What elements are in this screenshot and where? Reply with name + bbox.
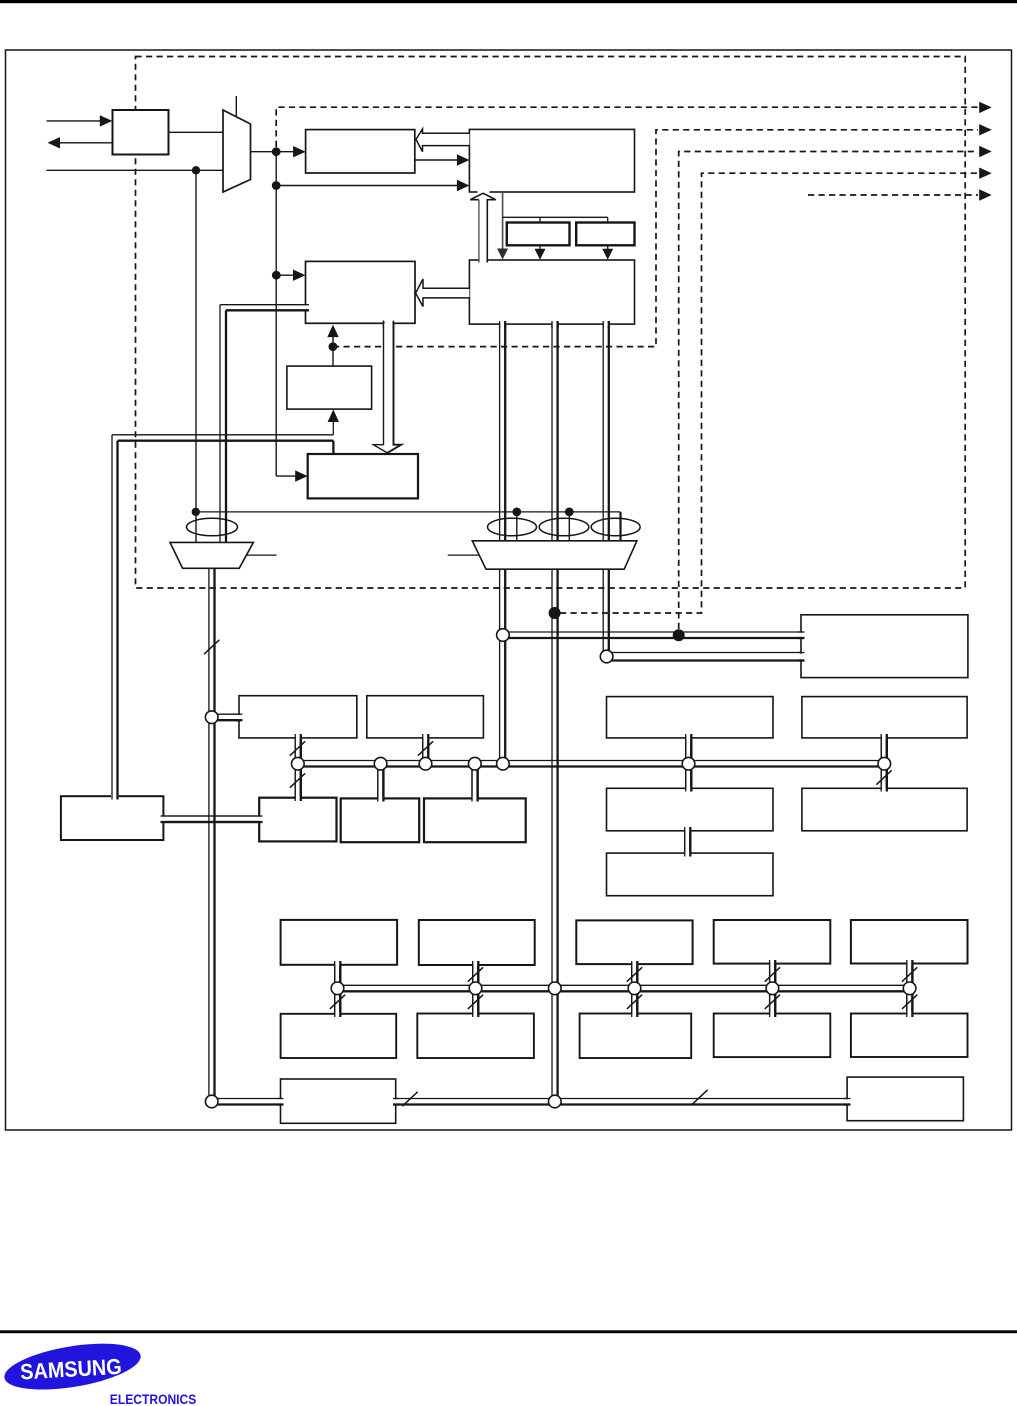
left mux output bus vertical <box>208 568 210 1101</box>
slash on G bus after E1 <box>402 1092 417 1106</box>
channel block9 to block11 <box>685 738 687 788</box>
wire IO block to mux <box>169 131 224 133</box>
top mux select stub <box>235 96 237 117</box>
top mux trapezoid <box>223 110 251 192</box>
wire drop into shift block top <box>332 441 334 455</box>
slash below E bus at D5 <box>902 995 917 1009</box>
slash above E bus at C2 <box>468 967 483 981</box>
slash on G bus before F <box>692 1090 707 1104</box>
arrow small block B to lower control <box>607 245 609 250</box>
wire control line from dot down the left side <box>195 170 197 542</box>
slash above E bus at C3 <box>627 967 642 981</box>
block instruction decode <box>306 130 415 173</box>
connector circle bus1 to bus A <box>497 629 510 642</box>
block C1 <box>281 920 398 965</box>
stub from aux block to reg B1 <box>163 815 259 817</box>
wire select drop a into data mux <box>516 512 518 542</box>
block address register <box>306 261 416 323</box>
block right bus interface <box>801 615 968 678</box>
channel circle to reg B2 <box>377 764 379 799</box>
connector circle E bus 4 <box>766 982 779 995</box>
right mux select stub <box>448 554 480 556</box>
junction dot mux output <box>272 147 281 156</box>
channel block11 to block13 <box>684 831 686 853</box>
channel C2-D2 <box>472 965 474 1014</box>
block reg B1 <box>259 798 336 842</box>
dashed path 4 arrow <box>979 168 992 179</box>
right data mux trapezoid <box>472 541 637 569</box>
block 12 far right <box>802 788 967 831</box>
dashed path 2 arrow <box>979 124 992 135</box>
block D5 <box>851 1014 968 1058</box>
block reg B2 <box>341 798 420 842</box>
block D4 <box>714 1014 831 1058</box>
edge gaps for channels <box>296 736 300 740</box>
junction dot node 3 <box>272 271 281 280</box>
block control top-right <box>469 129 634 192</box>
bus1 from control block to internal bus <box>499 324 501 764</box>
junction dot node 2 <box>272 181 281 190</box>
block C2 <box>419 920 535 965</box>
wire riser into temp reg block bottom <box>332 418 334 435</box>
block 13 right column <box>607 853 774 896</box>
channel C3-D3 <box>631 964 633 1013</box>
connector circle E bus 5 <box>903 982 916 995</box>
channel C1-D1 <box>334 964 336 1013</box>
dashed signal path 1 from mux output node <box>276 107 978 147</box>
bus3 from control block to transfer bus <box>602 324 604 657</box>
hollow arrow up control lower to control top <box>478 190 490 195</box>
coil ellipse left <box>187 518 238 536</box>
outer dashed boundary box <box>136 57 966 589</box>
block 9 right column <box>607 697 774 738</box>
coil ellipse a <box>488 518 537 536</box>
arrow small block A to lower control <box>539 245 541 250</box>
wire mux output to node <box>251 151 295 153</box>
slash above circle A2 <box>418 741 433 755</box>
wire register pair from address block left <box>220 304 306 306</box>
connector circle internal bus right end <box>878 757 891 770</box>
slash below E bus at D1 <box>330 995 345 1009</box>
dashed signal path 5 <box>808 194 978 196</box>
wire node to control block lower input <box>276 185 458 187</box>
block small B <box>576 223 634 246</box>
bottom page rule <box>0 1330 1017 1333</box>
block reg A2 <box>367 696 484 738</box>
connector circle E bus 3 <box>628 982 641 995</box>
slash below E bus at D3 <box>627 995 642 1009</box>
block D3 <box>580 1014 692 1059</box>
slash below circle block10 <box>876 770 891 784</box>
channel C4-D4 <box>769 964 771 1014</box>
slash above circle A1 <box>290 741 305 755</box>
junction dot on third line <box>192 166 200 174</box>
horizontal transfer bus B to register block right <box>607 652 801 654</box>
channel C5-D5 <box>906 964 908 1014</box>
bottom data bus G <box>212 1098 848 1100</box>
block F bottom right <box>847 1077 963 1121</box>
hollow arrow lower control to address reg <box>416 279 470 307</box>
connector circle E bus 1 <box>331 982 344 995</box>
arrow into control block lower <box>457 180 470 191</box>
register stub from circle to working reg <box>217 713 239 715</box>
junction dot dashed path3 on bus A <box>673 629 685 641</box>
hollow arrow control to decode <box>416 129 469 152</box>
svg-text:ELECTRONICS: ELECTRONICS <box>110 1392 197 1406</box>
dashed signal path 3 from data bus node <box>679 152 978 630</box>
wire horizontal pair to shifter and temp reg <box>112 434 333 436</box>
wire select drop b into data mux <box>568 512 570 542</box>
coil ellipse c <box>591 518 640 536</box>
samsung logo ellipse <box>1 1335 144 1397</box>
arrow into register block <box>293 270 306 281</box>
block D1 <box>281 1014 397 1058</box>
connector circle A2 drop <box>419 757 432 770</box>
bracket line to small blocks <box>503 216 608 218</box>
block C4 <box>714 920 831 964</box>
arrow up into temp reg block <box>328 410 339 423</box>
wire select drop c into data mux <box>619 512 621 542</box>
diagram outer border <box>6 50 1012 1130</box>
connector circle G bus left <box>205 1095 218 1108</box>
slash on left mux bus <box>204 640 219 654</box>
channel reg A2 down to bus <box>422 738 424 764</box>
wire input line into IO block <box>47 120 101 122</box>
channel block10 to block12 <box>880 738 882 788</box>
connector circle left bus to A1 stub <box>205 711 218 724</box>
block small A <box>507 223 570 246</box>
grey program line from control block down <box>502 192 504 250</box>
junction dot dashed path4 on bus2 <box>549 607 561 619</box>
block 11 right column <box>607 788 774 831</box>
block reg B3 <box>424 798 526 842</box>
wire register pair vertical to left data mux <box>219 305 221 543</box>
wire node column x276 <box>275 152 277 476</box>
block control lower <box>469 260 634 324</box>
block IO buffer top-left <box>113 110 169 155</box>
arrow mux output into decode block <box>293 146 306 157</box>
arrow into shift block left <box>295 470 308 481</box>
junction dot below address reg <box>329 342 338 351</box>
slash below E bus at D2 <box>468 995 483 1009</box>
block reg A1 <box>239 696 357 738</box>
block aux left <box>61 796 163 840</box>
junction dot control line a <box>512 508 521 517</box>
junction dot control line left <box>192 508 200 516</box>
svg-text:SAMSUNG: SAMSUNG <box>20 1354 123 1385</box>
connector circle E bus x bus2 <box>549 982 562 995</box>
dashed path 3 arrow <box>979 146 992 157</box>
arrow temp reg to address reg <box>332 334 334 366</box>
wire third input line to top mux <box>47 169 224 171</box>
arrow out of IO block <box>48 137 61 148</box>
connector circle bus1 end <box>497 757 510 770</box>
block temp register <box>287 366 372 409</box>
slash above E bus at C5 <box>902 967 917 981</box>
block C5 <box>851 920 968 964</box>
connector circle B2 drop <box>374 757 387 770</box>
connector circle block9 drop <box>682 757 695 770</box>
block 10 far right <box>802 697 967 738</box>
dashed path 1 arrow <box>979 102 992 113</box>
wire node to register block <box>276 274 295 276</box>
channel circle to reg B3 <box>471 764 473 799</box>
dashed signal path 2 from node below PC block <box>333 130 978 347</box>
horizontal transfer bus A to register block right <box>503 631 801 633</box>
channel reg A1 down to B1 <box>294 738 296 798</box>
wire output line from IO block <box>59 142 112 144</box>
left data mux trapezoid <box>170 542 253 568</box>
connector circle bus3 to bus B <box>600 650 613 663</box>
arrow grey line into lower control <box>497 249 508 260</box>
connector circle internal bus left end <box>292 757 305 770</box>
bus2 long vertical data bus <box>551 324 553 1102</box>
connector circle E bus 2 <box>469 982 482 995</box>
left mux select stub <box>247 554 277 556</box>
arrow into IO block <box>100 115 113 126</box>
dashed path 5 arrow <box>979 189 992 200</box>
coil ellipse b <box>539 518 589 536</box>
slash below circle A1 <box>290 773 305 787</box>
wire left bus riser pair to register file <box>111 435 113 796</box>
junction dot control line b <box>565 508 574 517</box>
connector circle G bus x bus2 <box>549 1095 562 1108</box>
internal data bus horizontal <box>298 760 885 762</box>
block E1 bottom left <box>281 1079 396 1123</box>
dashed signal path 4 from vertical bus node <box>560 173 978 613</box>
lower peripheral bus E <box>338 984 910 986</box>
grey control line from decode output node down <box>196 511 621 513</box>
block shifter <box>308 454 418 498</box>
arrow decode to control <box>415 159 458 161</box>
block C3 <box>576 920 692 964</box>
hollow arrow channel address reg to shifter <box>373 323 401 453</box>
slash above E bus at C4 <box>765 967 780 981</box>
top page rule <box>0 0 1017 3</box>
connector circle B3 drop <box>469 757 482 770</box>
block D2 <box>417 1014 534 1059</box>
slash below E bus at D4 <box>765 995 780 1009</box>
